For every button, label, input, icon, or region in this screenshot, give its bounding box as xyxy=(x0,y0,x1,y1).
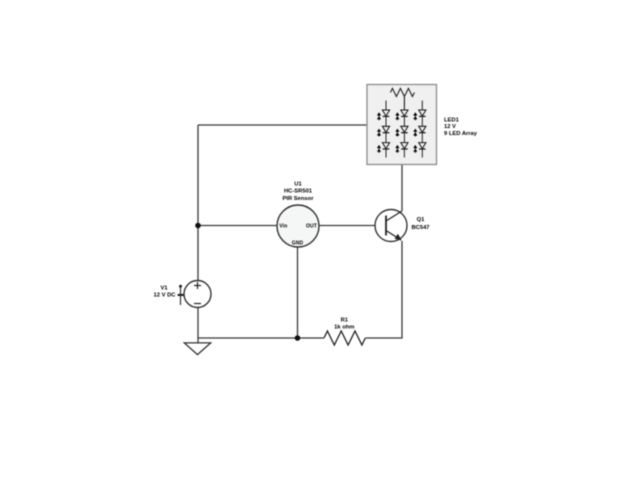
svg-text:Q1: Q1 xyxy=(417,217,426,223)
svg-text:R1: R1 xyxy=(341,318,349,324)
LED (array) xyxy=(395,126,408,136)
label V1 / 12 V DC xyxy=(154,286,177,299)
svg-text:HC-SR501: HC-SR501 xyxy=(284,189,313,195)
svg-text:LED1: LED1 xyxy=(444,117,460,123)
wire collector: LED1 box bottom to Q1 collector xyxy=(401,165,403,212)
svg-text:OUT: OUT xyxy=(306,224,317,230)
wire V1 minus to ground xyxy=(197,308,199,344)
label Q1 / BC547 xyxy=(411,217,429,231)
wire top: V1 to LED1 box xyxy=(198,124,367,126)
PIR sensor U1 xyxy=(277,205,319,247)
transistor Q1 xyxy=(375,210,407,242)
LED array LED1 box xyxy=(367,85,437,165)
LED (array) xyxy=(377,110,390,120)
voltage source V1 xyxy=(184,281,211,308)
svg-text:9 LED Array: 9 LED Array xyxy=(444,131,478,137)
wire Vin: node to U1 left pin xyxy=(198,225,277,227)
svg-text:12 V DC: 12 V DC xyxy=(154,293,177,299)
collector stroke xyxy=(386,211,402,221)
LED (array) xyxy=(413,143,426,153)
internal resistor of LED1 xyxy=(390,88,414,96)
svg-text:12 V: 12 V xyxy=(444,124,456,130)
wire OUT: U1 right pin to Q1 base xyxy=(319,225,386,227)
wire LED column 2 xyxy=(403,97,405,158)
LED (array) xyxy=(395,143,408,153)
svg-text:Vin: Vin xyxy=(279,224,287,230)
wire R1 right to Q1 emitter xyxy=(366,241,403,338)
ground xyxy=(184,343,210,355)
wire U1 GND to bottom node xyxy=(297,247,299,338)
wire bottom: ground node to R1 left xyxy=(198,337,324,339)
wire LED column 1 xyxy=(385,101,387,158)
LED (array) xyxy=(413,126,426,136)
junction node at GND/R1 branch xyxy=(295,335,301,341)
V1 polarity arrow glyph xyxy=(178,285,184,305)
svg-text:PIR Sensor: PIR Sensor xyxy=(283,196,315,202)
emitter stroke with arrow xyxy=(386,231,400,240)
svg-text:BC547: BC547 xyxy=(411,225,429,231)
svg-text:V1: V1 xyxy=(160,286,168,292)
wire LED column 3 xyxy=(421,101,423,158)
LED (array) xyxy=(377,126,390,136)
base bar xyxy=(385,216,387,236)
label LED1 / 12 V / 9 LED Array xyxy=(444,117,478,137)
svg-text:1k ohm: 1k ohm xyxy=(334,324,354,330)
resistor R1 xyxy=(324,331,365,345)
LED (array) xyxy=(413,110,426,120)
junction node at Vin branch xyxy=(195,223,201,229)
LED (array) xyxy=(377,143,390,153)
internal wire from resistor to middle LED column xyxy=(403,97,405,111)
label U1 / HC-SR501 / PIR Sensor xyxy=(283,181,315,202)
LED (array) xyxy=(395,110,408,120)
wire left vertical: top corner down to V1 plus terminal xyxy=(197,125,199,281)
svg-text:U1: U1 xyxy=(294,181,302,187)
svg-text:GND: GND xyxy=(292,240,304,246)
label R1 / 1k ohm xyxy=(334,318,354,331)
